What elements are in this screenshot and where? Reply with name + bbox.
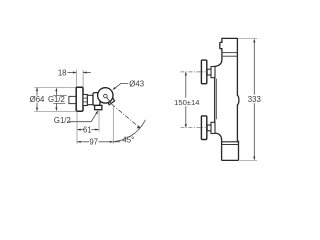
centerline top knob xyxy=(181,71,208,73)
extension line 97 (handle front) xyxy=(112,106,114,144)
extension line 18 right xyxy=(82,70,84,87)
svg-text:97: 97 xyxy=(89,138,98,147)
rotation dash-dot line 45deg xyxy=(112,104,140,127)
svg-text:45°: 45° xyxy=(122,135,134,144)
inner pipe line xyxy=(216,79,218,120)
hub circle xyxy=(104,94,108,98)
dimension 61 xyxy=(77,129,99,131)
svg-text:150±14: 150±14 xyxy=(174,98,199,107)
extension line O64 bottom xyxy=(34,110,76,112)
svg-text:333: 333 xyxy=(248,95,261,104)
G1/2 inlet label underline xyxy=(53,102,65,104)
outlet fitting xyxy=(95,105,102,109)
extension line 18 left xyxy=(75,70,77,87)
top cap seam lines xyxy=(222,52,238,54)
nut xyxy=(83,95,87,106)
extension line O64 top xyxy=(34,86,76,88)
top knob xyxy=(201,60,206,84)
centerline bottom knob xyxy=(181,127,208,129)
svg-text:Ø64: Ø64 xyxy=(30,95,45,104)
handle circle O43 xyxy=(98,88,113,103)
lever beak xyxy=(107,98,115,105)
extension line 333 top xyxy=(239,38,258,40)
svg-text:G1/2: G1/2 xyxy=(48,95,65,104)
svg-text:18: 18 xyxy=(58,68,67,77)
rotation arc xyxy=(114,120,145,142)
dimension 97 xyxy=(77,141,120,143)
wall stub G1/2 xyxy=(69,96,76,103)
collar xyxy=(87,95,93,104)
bottom block top edge xyxy=(222,141,239,143)
bottom knob xyxy=(201,116,206,140)
extension line 333 bottom xyxy=(240,159,258,161)
G1/2 inlet label overline xyxy=(53,95,67,97)
leader O43 xyxy=(114,83,128,89)
leader G1/2 outlet xyxy=(69,112,98,122)
G1/2 inlet arrows xyxy=(55,89,57,96)
dimension 150+-14 xyxy=(185,72,187,127)
dimension O64 xyxy=(36,88,38,111)
svg-text:G1/2: G1/2 xyxy=(54,116,71,125)
svg-text:61: 61 xyxy=(83,126,92,135)
dimension 18 xyxy=(68,72,91,74)
flange escutcheon xyxy=(76,87,83,111)
top stem xyxy=(207,69,211,75)
svg-text:Ø43: Ø43 xyxy=(129,80,144,89)
mixer body outline xyxy=(215,38,239,160)
bottom stem xyxy=(207,125,211,131)
extension line left (wall face) xyxy=(76,112,78,144)
dimension 333 xyxy=(253,39,255,159)
extension line 61 (outlet axis) xyxy=(98,110,100,131)
valve body xyxy=(93,93,100,106)
bottom seam line xyxy=(222,144,239,146)
lever pointer xyxy=(107,97,112,103)
